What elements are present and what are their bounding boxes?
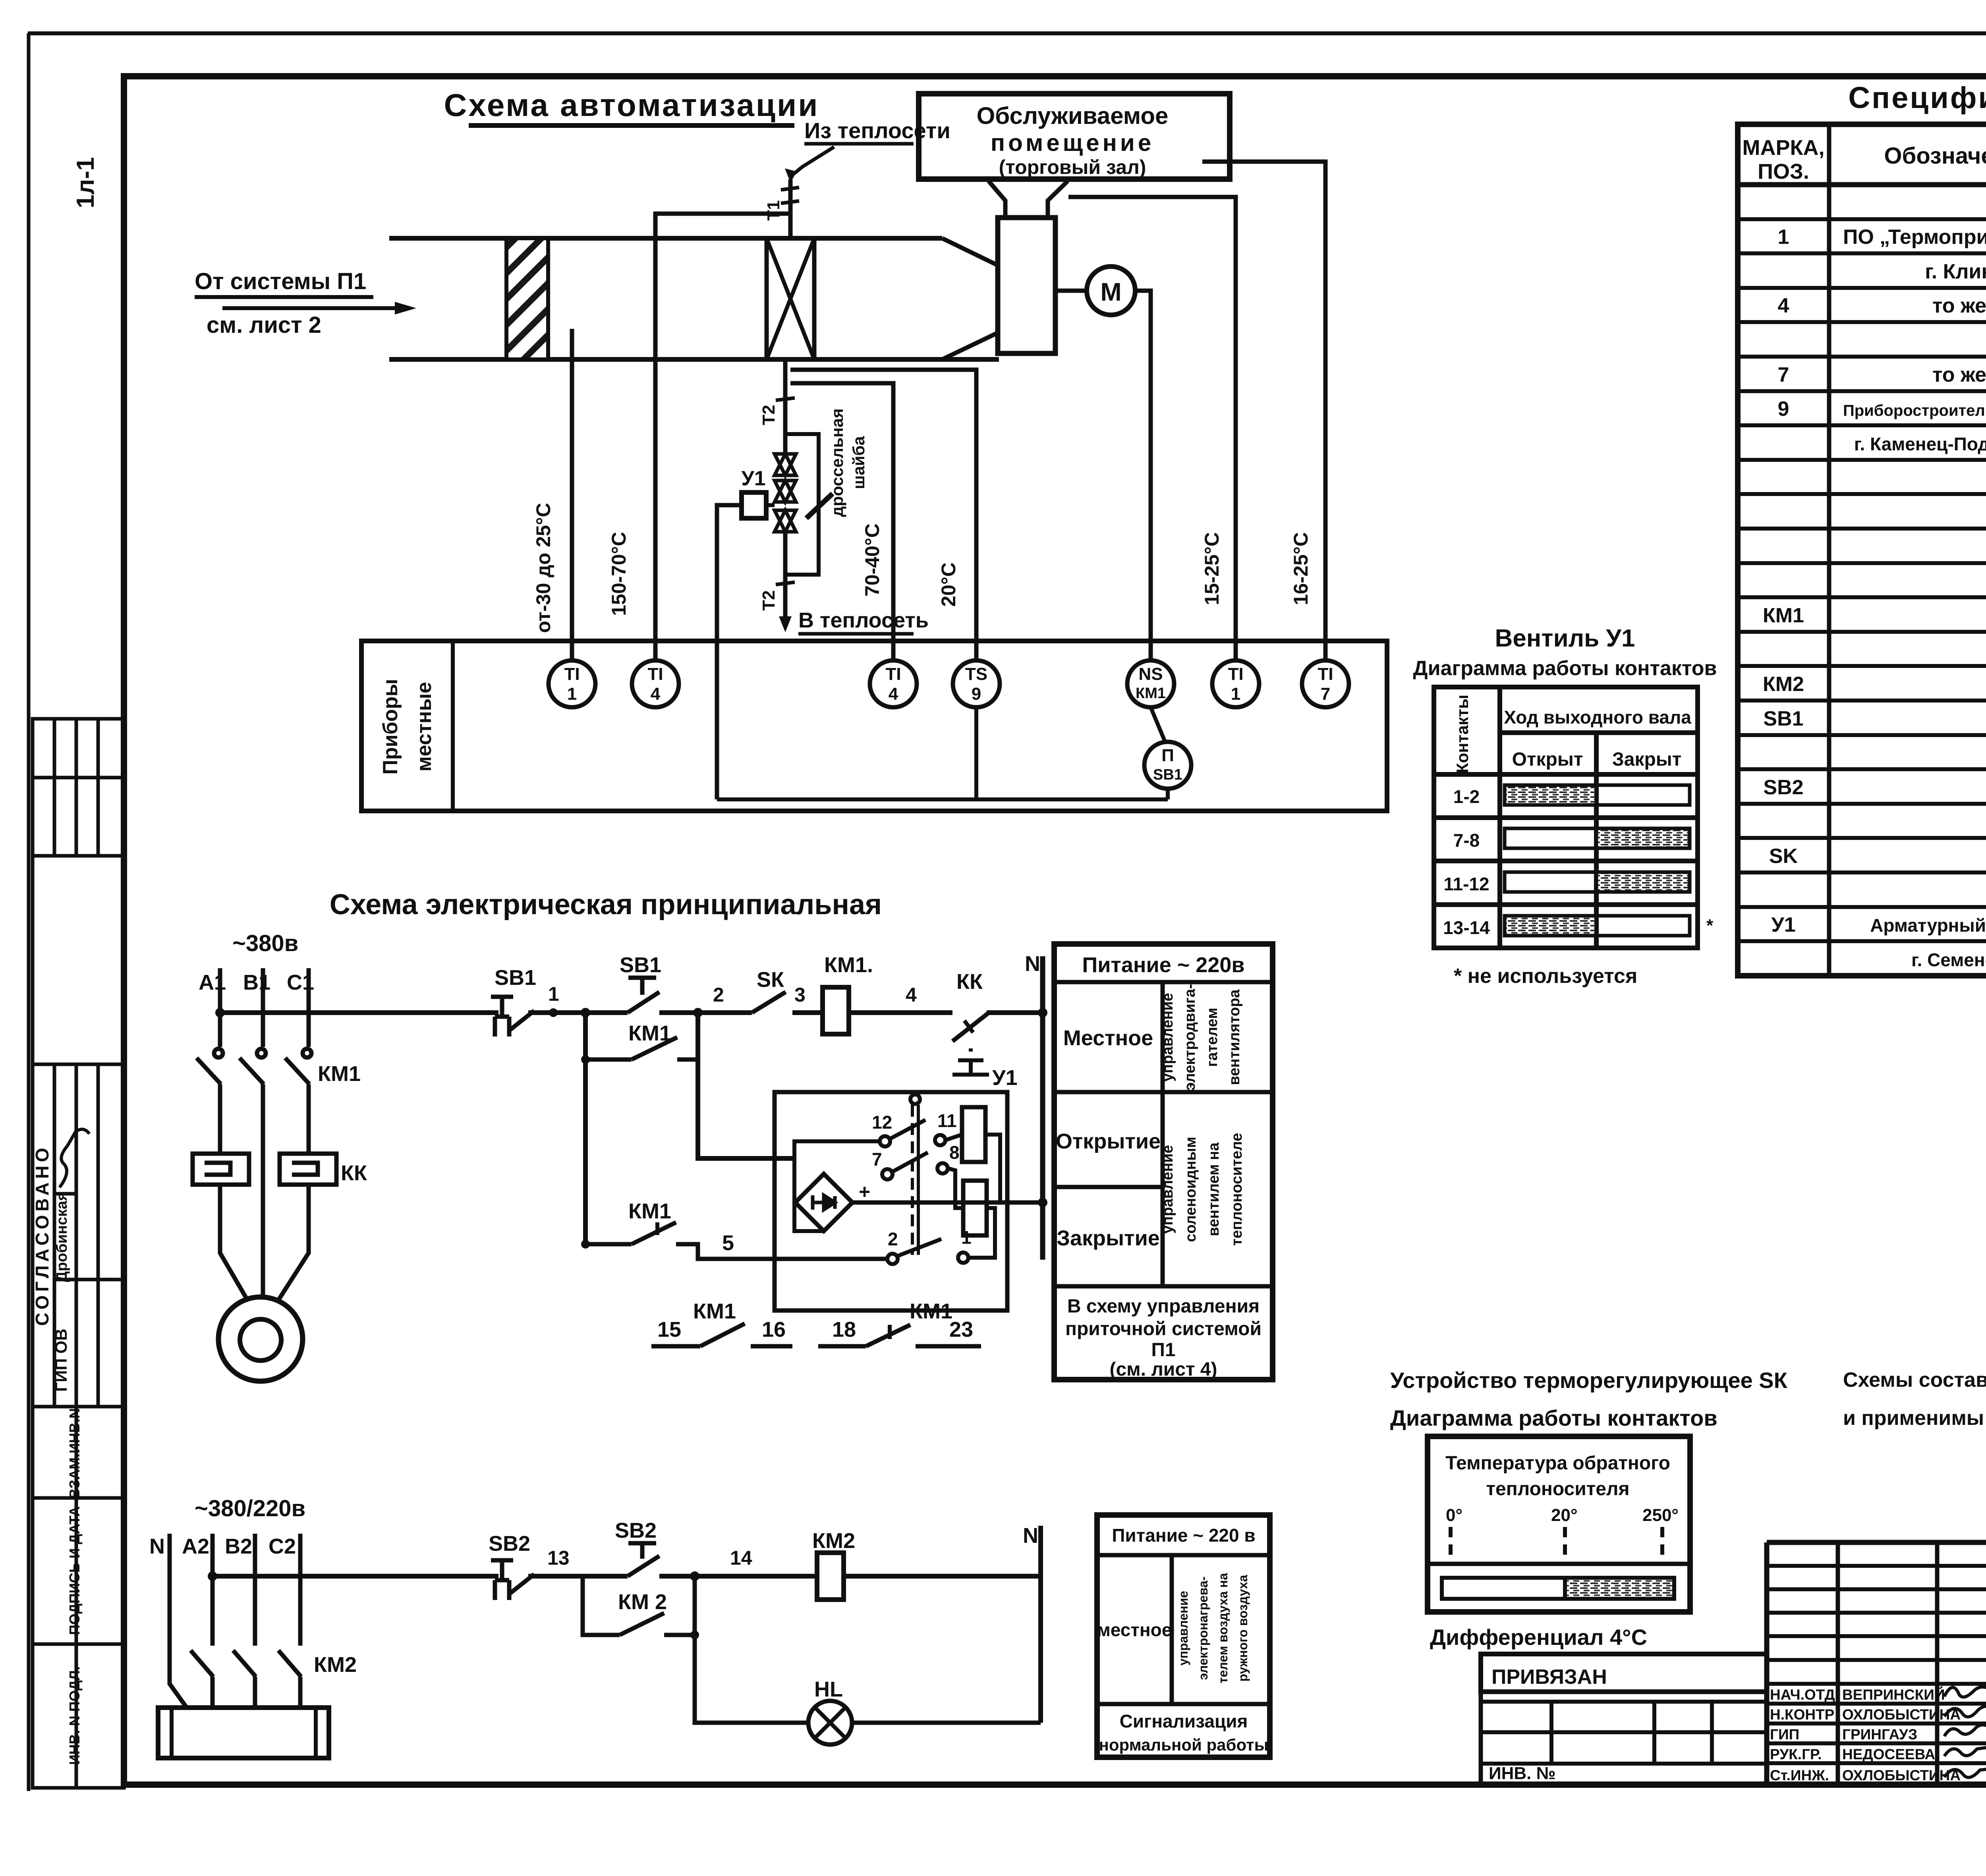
- svg-text:16: 16: [762, 1318, 786, 1341]
- svg-text:Т1: Т1: [764, 200, 783, 220]
- svg-text:г. Семенов: г. Семенов: [1911, 950, 1986, 970]
- svg-text:Диаграмма работы контактов: Диаграмма работы контактов: [1413, 657, 1717, 680]
- control bus: [213, 1574, 498, 1579]
- svg-text:Т2: Т2: [759, 590, 779, 610]
- wire: У1 control line: [717, 505, 742, 799]
- terminal 11: [935, 1135, 945, 1145]
- svg-text:7-8: 7-8: [1453, 830, 1480, 851]
- pipe loop over duct: [655, 214, 790, 660]
- svg-text:Ход выходного вала: Ход выходного вала: [1504, 707, 1691, 728]
- duct bottom wall: [389, 357, 999, 362]
- solenoid valve unit У1 box: [775, 1092, 1007, 1310]
- function table Питание 220в (bottom): [1097, 1515, 1270, 1757]
- svg-text:ИНВ. №: ИНВ. №: [1489, 1764, 1556, 1783]
- svg-text:У1: У1: [1771, 913, 1795, 936]
- svg-text:* не используется: * не используется: [1454, 965, 1637, 988]
- title block top line: [1767, 1540, 1986, 1545]
- svg-text:(торговый зал): (торговый зал): [999, 156, 1146, 178]
- svg-text:Из теплосети: Из теплосети: [804, 118, 950, 143]
- svg-text:КМ2: КМ2: [1763, 673, 1804, 696]
- wire: phase B2: [253, 1534, 257, 1646]
- junction A1/bus: [215, 1008, 225, 1017]
- svg-text:П1: П1: [1151, 1339, 1175, 1361]
- svg-text:8: 8: [949, 1142, 960, 1163]
- svg-text:С2: С2: [269, 1534, 296, 1558]
- svg-text:КМ1: КМ1: [910, 1299, 952, 1323]
- instrument TI-1b: [1212, 660, 1259, 707]
- svg-text:Питание ~ 220в: Питание ~ 220в: [1082, 953, 1244, 977]
- svg-text:7: 7: [872, 1149, 882, 1170]
- svg-text:4: 4: [651, 684, 661, 704]
- svg-text:вентилем на: вентилем на: [1206, 1142, 1222, 1236]
- svg-text:управление: управление: [1159, 1145, 1176, 1234]
- terminal 1: [958, 1253, 968, 1263]
- instrument П-SB1: [1144, 742, 1191, 789]
- svg-text:КМ1: КМ1: [1763, 604, 1804, 627]
- svg-text:SB2: SB2: [615, 1519, 657, 1542]
- svg-text:~380/220в: ~380/220в: [195, 1496, 305, 1521]
- svg-text:20°: 20°: [1551, 1505, 1578, 1525]
- svg-text:15-25°С: 15-25°С: [1201, 532, 1223, 605]
- svg-text:1: 1: [1778, 226, 1789, 249]
- signatures: [1944, 1652, 1986, 1778]
- svg-text:ПОДПИСЬ И ДАТА: ПОДПИСЬ И ДАТА: [66, 1506, 83, 1635]
- svg-text:SB1: SB1: [1153, 766, 1182, 783]
- coil 1: [962, 1107, 985, 1162]
- svg-text:250°: 250°: [1642, 1505, 1679, 1525]
- svg-text:TS: TS: [965, 664, 987, 684]
- svg-text:Контакты: Контакты: [1453, 695, 1472, 773]
- svg-text:1л-1: 1л-1: [72, 157, 99, 208]
- KM1 aux holding contact: [581, 1055, 590, 1064]
- mechanical link stem: [910, 1094, 920, 1104]
- svg-text:НЕДОСЕЕВА: НЕДОСЕЕВА: [1842, 1746, 1935, 1762]
- terminal 2: [887, 1254, 898, 1264]
- svg-text:3: 3: [794, 984, 806, 1006]
- control bus L: [220, 1010, 498, 1015]
- left margin stamp strip: [33, 719, 124, 1788]
- terminal 7: [882, 1169, 893, 1179]
- electric heater box: [158, 1708, 329, 1758]
- inner frame: [794, 1141, 880, 1231]
- svg-text:КМ 2: КМ 2: [618, 1590, 667, 1614]
- svg-text:В1: В1: [243, 971, 270, 994]
- aux contact KM1 18-23: [818, 1344, 866, 1349]
- svg-text:Т2: Т2: [759, 405, 779, 425]
- svg-text:М: М: [1100, 278, 1121, 306]
- contact diagram table У1: [1434, 687, 1698, 948]
- svg-text:2: 2: [713, 984, 724, 1006]
- svg-text:КМ1: КМ1: [628, 1199, 671, 1223]
- svg-text:Вентиль У1: Вентиль У1: [1495, 625, 1635, 652]
- motor M1: [1055, 289, 1087, 293]
- motor M: [218, 1297, 303, 1381]
- svg-text:SB1: SB1: [495, 966, 536, 990]
- svg-text:Сигнализация: Сигнализация: [1120, 1711, 1248, 1731]
- wire down from node 2: [698, 1013, 795, 1158]
- svg-text:От системы П1: От системы П1: [195, 268, 366, 294]
- svg-text:ВЗАМ.ИНВ.N: ВЗАМ.ИНВ.N: [66, 1408, 83, 1499]
- svg-text:МАРКА,: МАРКА,: [1743, 136, 1825, 160]
- svg-text:шайба: шайба: [849, 436, 868, 489]
- svg-text:Дробинская: Дробинская: [54, 1192, 70, 1282]
- svg-text:Местное: Местное: [1063, 1026, 1153, 1050]
- svg-text:КМ2: КМ2: [812, 1529, 855, 1553]
- instrument TI-4: [632, 660, 679, 707]
- svg-text:2: 2: [888, 1229, 898, 1249]
- svg-text:то же: то же: [1932, 363, 1986, 386]
- svg-text:14: 14: [730, 1547, 752, 1569]
- thermal relay KK heater A: [193, 1154, 249, 1185]
- svg-text:управление: управление: [1159, 993, 1176, 1082]
- instrument TI-1: [549, 660, 595, 707]
- contactor KM1 main contacts: [197, 1049, 311, 1298]
- svg-text:КК: КК: [341, 1161, 367, 1185]
- revision grid: [1764, 1542, 1770, 1785]
- node 1: [549, 1008, 558, 1017]
- svg-text:9: 9: [972, 684, 981, 704]
- svg-text:Ст.ИНЖ.: Ст.ИНЖ.: [1770, 1767, 1829, 1783]
- svg-text:NS: NS: [1138, 664, 1163, 684]
- served room box: [919, 94, 1230, 179]
- svg-text:телем воздуха на: телем воздуха на: [1216, 1573, 1230, 1683]
- svg-text:TI: TI: [564, 664, 580, 684]
- svg-text:РУК.ГР.: РУК.ГР.: [1770, 1746, 1822, 1762]
- svg-text:ружного воздуха: ружного воздуха: [1236, 1575, 1250, 1681]
- svg-text:У1: У1: [992, 1066, 1018, 1090]
- svg-text:теплоносителе: теплоносителе: [1229, 1133, 1245, 1246]
- svg-text:4: 4: [1778, 294, 1789, 317]
- wire: motor to NS sensor: [1135, 291, 1151, 660]
- svg-text:7: 7: [1778, 363, 1789, 386]
- sheet outer border top: [28, 31, 1986, 35]
- KM2 aux holding contact: [583, 1576, 620, 1635]
- svg-text:КМ1: КМ1: [318, 1062, 361, 1086]
- svg-text:1-2: 1-2: [1453, 786, 1480, 807]
- svg-text:Н.КОНТР: Н.КОНТР: [1770, 1706, 1834, 1723]
- svg-text:Приборы: Приборы: [379, 679, 402, 774]
- svg-text:1: 1: [961, 1227, 972, 1248]
- actuator У1: [742, 492, 766, 518]
- svg-text:Обслуживаемое: Обслуживаемое: [977, 102, 1169, 129]
- transition cone: [942, 238, 998, 265]
- instrument TI-7: [1302, 660, 1349, 707]
- svg-text:SК: SК: [757, 968, 784, 992]
- svg-text:Закрыт: Закрыт: [1612, 749, 1682, 770]
- KM1 contact to valve: [581, 1240, 590, 1249]
- svg-text:18: 18: [832, 1318, 856, 1341]
- svg-text:4: 4: [889, 684, 898, 704]
- aux contact KM1 15-16: [651, 1344, 700, 1349]
- svg-text:N: N: [1023, 1524, 1038, 1548]
- svg-text:13: 13: [547, 1547, 570, 1569]
- svg-text:16-25°С: 16-25°С: [1290, 532, 1312, 605]
- terminal 8: [937, 1163, 948, 1173]
- svg-text:КМ1.: КМ1.: [824, 953, 873, 977]
- instrument TI-4b: [870, 660, 917, 707]
- svg-text:Схема электрическая принципиал: Схема электрическая принципиальная: [330, 889, 882, 921]
- svg-text:ПО „Термоприбор”: ПО „Термоприбор”: [1843, 226, 1986, 249]
- svg-text:от-30 до 25°С: от-30 до 25°С: [532, 503, 554, 633]
- svg-text:помещение: помещение: [991, 129, 1154, 156]
- fan outlet funnel to room: [989, 181, 1005, 218]
- svg-text:электронагрева-: электронагрева-: [1196, 1577, 1210, 1680]
- instrument NS-КМ1: [1127, 660, 1174, 707]
- coil 2: [963, 1181, 987, 1235]
- svg-text:то же: то же: [1932, 294, 1986, 317]
- svg-text:теплоносителя: теплоносителя: [1486, 1478, 1630, 1500]
- svg-text:1: 1: [567, 684, 577, 704]
- svg-text:КМ1: КМ1: [1136, 685, 1166, 702]
- junction to KM1 aux: [581, 1008, 590, 1017]
- thermal relay KK heater C: [280, 1154, 336, 1185]
- valve 1: [775, 454, 796, 475]
- svg-text:13-14: 13-14: [1443, 917, 1490, 938]
- svg-text:КК: КК: [956, 970, 983, 994]
- wire: bridge output to N: [852, 1200, 1043, 1205]
- node 2: [693, 1008, 703, 1017]
- leader arrow to T1: [794, 147, 834, 174]
- svg-text:В схему управления: В схему управления: [1067, 1296, 1260, 1317]
- svg-text:А2: А2: [182, 1534, 209, 1558]
- wire: inlet arrow: [222, 306, 405, 310]
- svg-text:12: 12: [872, 1112, 892, 1133]
- svg-text:ГИП ОВ: ГИП ОВ: [52, 1329, 70, 1392]
- svg-text:дроссельная: дроссельная: [828, 408, 846, 517]
- svg-text:Схема автоматизации: Схема автоматизации: [444, 87, 819, 123]
- svg-text:SB1: SB1: [620, 953, 661, 977]
- svg-text:*: *: [1706, 916, 1714, 935]
- instrument TS-9: [953, 660, 1000, 707]
- svg-text:местные: местные: [413, 682, 436, 772]
- svg-text:ОХЛОБЫСТИНА: ОХЛОБЫСТИНА: [1842, 1767, 1961, 1783]
- internal wire row: [717, 797, 1168, 801]
- svg-text:ВЕПРИНСКИЙ: ВЕПРИНСКИЙ: [1842, 1686, 1945, 1703]
- svg-text:соленоидным: соленоидным: [1182, 1137, 1199, 1242]
- rectifier bridge: [795, 1174, 852, 1231]
- svg-text:В теплосеть: В теплосеть: [798, 608, 929, 632]
- svg-text:1: 1: [1231, 684, 1240, 704]
- svg-text:Арматурный завод,: Арматурный завод,: [1870, 915, 1986, 936]
- svg-text:+: +: [859, 1181, 870, 1203]
- duct top wall: [389, 236, 942, 241]
- signal lamp HL branch: [690, 1631, 699, 1639]
- spec table grid: [1738, 124, 1986, 976]
- node T1 supply pipe: [788, 179, 793, 238]
- contact blade 2-1: [897, 1239, 941, 1256]
- sensor tap TI1: [570, 329, 574, 660]
- svg-text:местное: местное: [1097, 1619, 1172, 1640]
- svg-text:70-40°С: 70-40°С: [861, 523, 883, 596]
- svg-text:11-12: 11-12: [1443, 874, 1489, 894]
- svg-text:управление: управление: [1176, 1591, 1190, 1666]
- wires to motor: [220, 1185, 247, 1299]
- wire: neutral drop: [170, 1534, 187, 1708]
- SK diagram box: [1428, 1436, 1690, 1612]
- svg-text:ИНВ. N ПОДЛ.: ИНВ. N ПОДЛ.: [66, 1666, 83, 1765]
- terminal 12: [880, 1136, 890, 1146]
- svg-text:23: 23: [949, 1318, 973, 1341]
- coil wiring: [945, 1135, 962, 1140]
- svg-text:HL: HL: [814, 1677, 843, 1701]
- function table Питание 220в: [1054, 944, 1273, 1380]
- svg-text:4: 4: [906, 984, 917, 1006]
- wire: phase A1: [218, 968, 222, 1047]
- svg-text:П: П: [1161, 746, 1174, 765]
- return pipe T2 with taps: [783, 359, 788, 454]
- svg-text:Температура обратного: Температура обратного: [1445, 1453, 1670, 1474]
- svg-text:Открыт: Открыт: [1512, 749, 1583, 770]
- svg-text:вентилятора: вентилятора: [1226, 989, 1243, 1085]
- svg-text:SB1: SB1: [1763, 707, 1803, 730]
- svg-text:N: N: [149, 1534, 165, 1558]
- svg-text:КМ1: КМ1: [628, 1021, 671, 1045]
- svg-text:TI: TI: [647, 664, 663, 684]
- solenoid valve of У1: [775, 481, 796, 502]
- contact blade 7-8: [892, 1152, 928, 1172]
- room sensor wire B (TI1): [1068, 197, 1236, 660]
- heater coil box with X: [767, 238, 814, 359]
- svg-text:приточной системой: приточной системой: [1065, 1318, 1262, 1339]
- contact blade 12-11: [890, 1120, 925, 1139]
- svg-text:Открытие: Открытие: [1056, 1129, 1161, 1153]
- svg-text:11: 11: [937, 1110, 957, 1131]
- svg-text:5: 5: [722, 1231, 734, 1255]
- svg-text:Схемы составлены для одной при: Схемы составлены для одной приточной сис…: [1843, 1368, 1986, 1392]
- stamp signature: [60, 1129, 89, 1187]
- wire: phase A2: [211, 1534, 215, 1646]
- contactor KM2 main contacts: [191, 1650, 301, 1708]
- svg-text:ПОЗ.: ПОЗ.: [1758, 160, 1809, 183]
- svg-text:г. Каменец-Подольский: г. Каменец-Подольский: [1854, 434, 1986, 454]
- svg-text:В2: В2: [225, 1534, 252, 1558]
- svg-text:(см. лист 4): (см. лист 4): [1109, 1359, 1217, 1380]
- valve 2: [775, 510, 796, 532]
- svg-text:20°С: 20°С: [937, 562, 960, 607]
- contact band: [1442, 1578, 1674, 1599]
- arrow в теплосеть: [779, 616, 792, 632]
- svg-text:TI: TI: [885, 664, 901, 684]
- svg-text:СОГЛАСОВАНО: СОГЛАСОВАНО: [32, 1144, 52, 1326]
- svg-text:г. Клин: г. Клин: [1925, 260, 1986, 283]
- svg-text:ГИП: ГИП: [1770, 1726, 1799, 1743]
- svg-text:TI: TI: [1228, 664, 1243, 684]
- svg-text:КМ2: КМ2: [314, 1653, 357, 1677]
- svg-text:Спецификация элементов систем: Спецификация элементов системы П2: [1848, 81, 1986, 115]
- wire x1474 down: [583, 1013, 588, 1244]
- svg-text:и применимы для системы П2: и применимы для системы П2: [1843, 1407, 1986, 1430]
- wire: phase C2: [298, 1534, 303, 1646]
- room sensor wire A (TI7): [1202, 162, 1325, 660]
- svg-text:гателем: гателем: [1204, 1007, 1221, 1067]
- привязан box: [1481, 1654, 1767, 1692]
- svg-text:см. лист 2: см. лист 2: [207, 312, 321, 338]
- wire: phase C1: [307, 968, 311, 1047]
- svg-text:15: 15: [657, 1318, 681, 1341]
- svg-text:Питание ~ 220 в: Питание ~ 220 в: [1112, 1525, 1255, 1546]
- svg-text:ОХЛОБЫСТИНА: ОХЛОБЫСТИНА: [1842, 1706, 1961, 1723]
- svg-text:0°: 0°: [1446, 1505, 1462, 1525]
- wire: phase B1: [261, 968, 265, 1047]
- svg-text:КМ1: КМ1: [693, 1299, 736, 1323]
- svg-text:1: 1: [548, 983, 559, 1005]
- svg-text:SB2: SB2: [489, 1532, 530, 1556]
- svg-text:Обозначение: Обозначение: [1884, 143, 1986, 169]
- svg-text:Закрытие: Закрытие: [1057, 1226, 1160, 1250]
- svg-text:SB2: SB2: [1763, 776, 1803, 799]
- svg-text:Диаграмма работы контактов: Диаграмма работы контактов: [1390, 1405, 1717, 1430]
- svg-text:нормальной работы: нормальной работы: [1099, 1735, 1268, 1754]
- svg-text:TI: TI: [1318, 664, 1333, 684]
- local instruments row box: [361, 641, 1387, 811]
- svg-text:ГРИНГАУЗ: ГРИНГАУЗ: [1842, 1726, 1917, 1743]
- fan box: [998, 218, 1055, 353]
- svg-text:SK: SK: [1769, 845, 1798, 868]
- filter (hatched): [506, 238, 548, 359]
- svg-text:7: 7: [1321, 684, 1330, 704]
- svg-text:9: 9: [1778, 398, 1789, 421]
- svg-text:~380в: ~380в: [232, 930, 298, 956]
- svg-text:У1: У1: [741, 467, 765, 490]
- svg-text:N: N: [1025, 952, 1040, 976]
- svg-text:150-70°С: 150-70°С: [608, 532, 630, 616]
- bypass with drossel washer: [785, 434, 819, 575]
- svg-text:НАЧ.ОТД: НАЧ.ОТД: [1770, 1687, 1835, 1703]
- svg-text:Устройство терморегулирующее S: Устройство терморегулирующее SК: [1390, 1368, 1788, 1393]
- svg-text:Приборостроительный завод: Приборостроительный завод: [1843, 402, 1986, 419]
- svg-text:электродвига-: электродвига-: [1182, 984, 1198, 1091]
- sheet outer border left: [27, 33, 31, 1791]
- svg-text:ПРИВЯЗАН: ПРИВЯЗАН: [1491, 1666, 1607, 1689]
- svg-text:Дифференциал 4°С: Дифференциал 4°С: [1430, 1625, 1647, 1650]
